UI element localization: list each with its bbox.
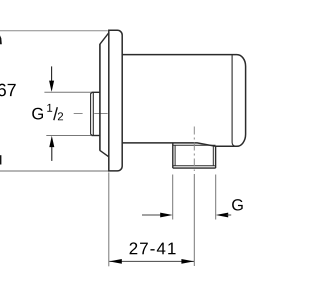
27-41 arrowhead right (points right) xyxy=(181,259,194,264)
down arrow (inlet top dimension) xyxy=(49,66,54,92)
superscript 1 of G 1/2 xyxy=(47,104,52,112)
label G of outlet thread (cropped at right edge) xyxy=(232,199,243,210)
outlet stub right outer edge xyxy=(215,146,217,168)
27-41 arrowhead left (points left) xyxy=(109,259,122,264)
inlet thread stub inner left edge xyxy=(92,92,94,135)
subscript 2 of G 1/2 xyxy=(58,112,63,120)
inlet stub bottom edge xyxy=(92,135,100,137)
inlet stub top edge xyxy=(92,91,100,93)
outlet stub outer bottom edge xyxy=(173,167,216,169)
flange wall plate xyxy=(109,30,122,171)
cropped glyph sliver upper-left xyxy=(0,35,2,44)
label G of thread size G 1/2 xyxy=(32,108,43,120)
extension line top (flange top, runs off left image edge) xyxy=(0,30,108,32)
fraction slash of G 1/2 xyxy=(54,107,58,120)
G dimension extension line right xyxy=(215,175,217,220)
inlet centerline (dash-dot) xyxy=(74,113,108,115)
outlet stub inner bottom edge xyxy=(173,165,215,167)
dimension text 67 (cropped at left edge) xyxy=(0,84,16,97)
inlet thread stub outer left edge xyxy=(91,93,93,136)
body end-cap tangent line xyxy=(232,55,236,147)
outlet stub left inner thread line xyxy=(174,145,176,165)
G dimension arrow left (points right) xyxy=(142,213,173,218)
G dimension extension line left xyxy=(172,175,174,220)
cropped glyph sliver lower-left xyxy=(0,155,1,164)
27-41 dimension extension line left xyxy=(108,172,110,266)
outlet centerline upper (dash-dot) xyxy=(193,127,195,172)
extension line inlet bottom xyxy=(46,135,91,137)
G dimension arrow right (points left) xyxy=(216,213,232,218)
extension line bottom (flange bottom, runs off left image edge) xyxy=(0,170,109,172)
body outline xyxy=(122,55,245,147)
27-41 dimension line xyxy=(109,260,194,262)
outlet stub right inner thread line xyxy=(212,145,214,165)
outlet stub shoulder line xyxy=(173,144,216,146)
dimension text 27-41 xyxy=(130,242,176,254)
outlet centerline lower / dimension extension xyxy=(193,174,195,266)
up arrow (inlet bottom dimension) xyxy=(49,136,54,161)
outlet stub left outer edge xyxy=(172,143,174,168)
flange top chamfer xyxy=(100,33,109,44)
flange bottom chamfer xyxy=(100,150,109,156)
flange front face xyxy=(99,44,101,151)
extension line inlet top xyxy=(44,91,91,93)
